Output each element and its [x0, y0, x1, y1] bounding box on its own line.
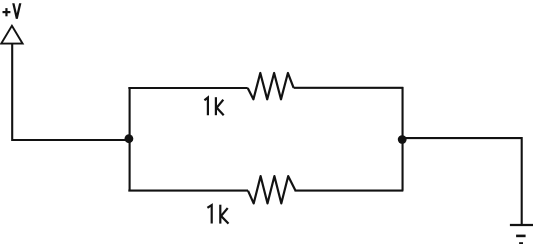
- value label 1 k (top resistor): [204, 97, 223, 115]
- wire top branch left segment: [128, 87, 247, 89]
- wire bottom branch right segment: [295, 190, 404, 192]
- wire right rail of parallel loop: [401, 87, 403, 191]
- resistor R1 zigzag (top 1 k): [248, 73, 294, 99]
- wire from node B right and down to ground: [402, 138, 522, 225]
- wire top branch right segment: [294, 87, 404, 89]
- value label 1 k (bottom resistor): [207, 205, 228, 224]
- wire from +V down and right to node A: [12, 44, 129, 140]
- ground symbol bar 2: [516, 235, 526, 238]
- power supply symbol +V (triangle): [1, 26, 22, 44]
- junction node B (right dot): [398, 135, 407, 144]
- wire bottom branch left segment: [128, 190, 248, 192]
- ground symbol bar 3: [519, 242, 523, 244]
- node +V label: [3, 3, 22, 19]
- resistor R2 zigzag (bottom 1 k): [248, 176, 296, 203]
- ground symbol bar 1: [510, 224, 533, 226]
- wire left rail of parallel loop: [129, 88, 131, 191]
- junction node A (left dot): [124, 134, 133, 143]
